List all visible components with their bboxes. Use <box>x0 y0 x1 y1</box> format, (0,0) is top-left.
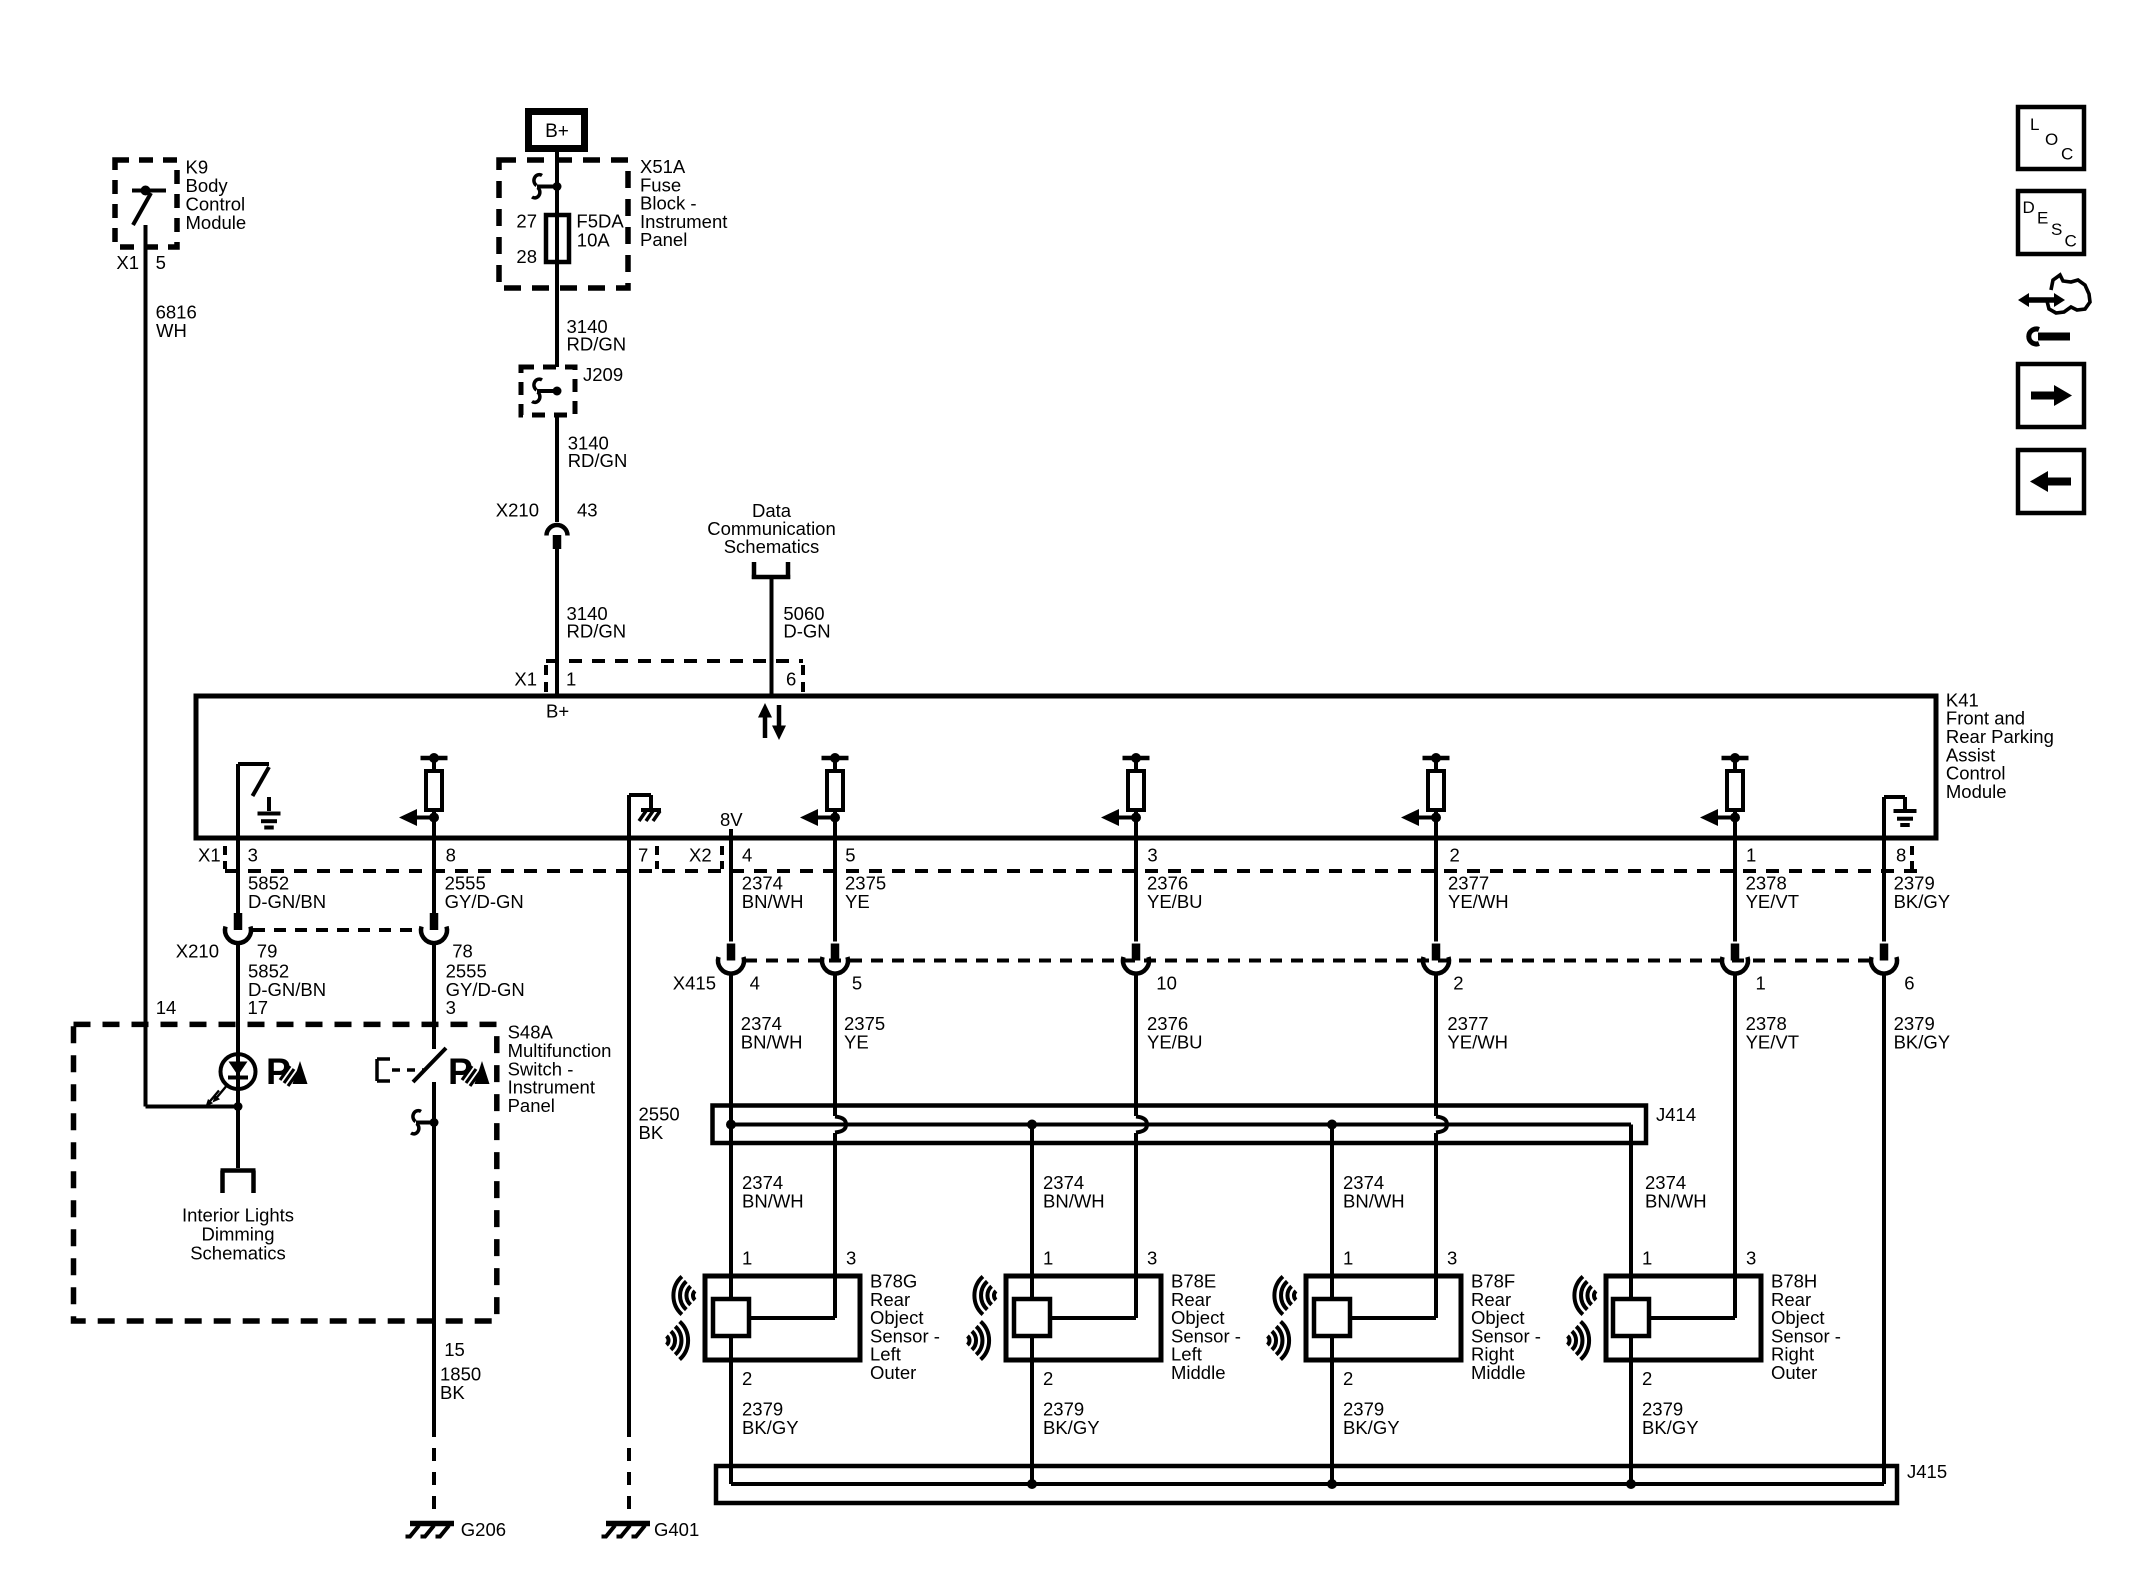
sensor B78F Rear Object Sensor box <box>1306 1276 1461 1360</box>
svg-text:BN/WH: BN/WH <box>1645 1190 1707 1211</box>
svg-text:BK/GY: BK/GY <box>1043 1417 1100 1438</box>
svg-text:27: 27 <box>516 211 537 232</box>
splice pack J415 box <box>716 1461 1947 1503</box>
connector X415 row terminals <box>673 944 1915 994</box>
sensor B78H label <box>1771 1271 1841 1384</box>
svg-text:7: 7 <box>638 845 648 866</box>
svg-text:3: 3 <box>1447 1248 1457 1269</box>
svg-text:J414: J414 <box>1656 1104 1696 1125</box>
svg-text:Middle: Middle <box>1171 1362 1226 1383</box>
sensor B78H sound waves icon <box>1568 1277 1597 1360</box>
terminal clip below switch <box>411 1111 439 1134</box>
svg-text:Schematics: Schematics <box>190 1242 286 1263</box>
svg-text:1: 1 <box>1043 1248 1053 1269</box>
dashed wire to G401 <box>627 1424 631 1519</box>
wire 2378 YE/VT label below X415 <box>1746 1013 1799 1052</box>
splice pack J414 box <box>713 1104 1697 1143</box>
internal switch in K9 <box>132 186 166 248</box>
svg-text:X415: X415 <box>673 973 716 994</box>
off-page reference Data Communication Schematics <box>707 500 836 579</box>
switch S48A label <box>508 1022 612 1116</box>
in-line connector X210 terminal 43 <box>496 500 598 550</box>
svg-text:3: 3 <box>1746 1248 1756 1269</box>
svg-text:5: 5 <box>845 845 855 866</box>
svg-text:4: 4 <box>750 973 760 994</box>
splice J415 bus wire <box>731 1482 1884 1486</box>
wire 2374 BN/WH to B78G label <box>742 1172 804 1211</box>
wire B78E pin 2 to J415 <box>1030 1360 1034 1484</box>
wire LED to junction <box>236 1089 240 1168</box>
svg-text:1: 1 <box>566 669 576 690</box>
dimmer switch contact in S48A <box>377 1048 446 1123</box>
svg-text:Schematics: Schematics <box>724 536 820 557</box>
module K9 Body Control Module dashed box <box>115 160 177 247</box>
wire X415-10 to sensor B78E pin 3 with hop over J414 bus <box>1136 974 1147 1319</box>
ground G206 <box>406 1519 507 1540</box>
sensor B78E ultrasonic transducer <box>1014 1276 1136 1360</box>
park assist button icon at switch <box>448 1051 490 1092</box>
svg-text:Middle: Middle <box>1471 1362 1526 1383</box>
wire 2374 BN/WH to B78H label <box>1645 1172 1707 1211</box>
svg-text:YE/BU: YE/BU <box>1147 1031 1203 1052</box>
svg-text:28: 28 <box>516 246 537 267</box>
svg-text:Outer: Outer <box>870 1362 916 1383</box>
svg-text:YE/WH: YE/WH <box>1447 1031 1508 1052</box>
wire into switch branch <box>432 945 436 1049</box>
svg-text:1: 1 <box>1343 1248 1353 1269</box>
svg-text:1: 1 <box>1642 1248 1652 1269</box>
wire pin X1-8 to X210 <box>432 838 436 913</box>
Interior Lights Dimming Schematics label <box>182 1205 294 1264</box>
svg-text:Module: Module <box>1946 781 2007 802</box>
wire J414 to sensor B78F pin 1 <box>1330 1125 1334 1300</box>
svg-text:B+: B+ <box>546 701 569 722</box>
sensor B78G pin labels <box>742 1248 856 1390</box>
sensor B78E sound waves icon <box>968 1277 997 1360</box>
wire X415-2 to sensor B78F pin 3 with hop over J414 bus <box>1436 974 1447 1319</box>
fuse block X51A label <box>640 156 727 250</box>
svg-text:G401: G401 <box>654 1519 699 1540</box>
sensor B78F label <box>1471 1271 1541 1384</box>
svg-text:2: 2 <box>1642 1368 1652 1389</box>
sensor B78H Rear Object Sensor box <box>1606 1276 1761 1360</box>
sensor B78E Rear Object Sensor box <box>1006 1276 1161 1360</box>
svg-text:Interior Lights: Interior Lights <box>182 1205 294 1226</box>
svg-text:YE/VT: YE/VT <box>1746 1031 1799 1052</box>
LOC button <box>2018 107 2084 169</box>
internal driver resistor at pin X2-3 <box>1101 753 1150 838</box>
terminal clip in fuse block <box>532 175 562 198</box>
svg-text:J209: J209 <box>583 364 623 385</box>
wire X415-6 to splice J415, 2379 BK/GY <box>1882 974 1886 1485</box>
svg-text:YE: YE <box>845 891 870 912</box>
sensor B78F pin labels <box>1343 1248 1457 1390</box>
svg-text:RD/GN: RD/GN <box>568 450 628 471</box>
svg-text:17: 17 <box>248 997 269 1018</box>
wire X415-1 to sensor B78H pin 3 <box>1733 974 1737 1319</box>
wire fuse to J209, 3140 RD/GN <box>557 262 626 367</box>
svg-text:2: 2 <box>1453 973 1463 994</box>
previous page arrow button <box>2018 450 2084 513</box>
svg-text:1: 1 <box>1756 973 1766 994</box>
svg-text:B+: B+ <box>545 121 569 142</box>
wire pin X2-1 to X415 <box>1733 838 1737 942</box>
svg-text:Module: Module <box>186 212 247 233</box>
internal driver resistor at pin X1-8 <box>399 753 448 838</box>
switch S48A Multifunction Switch dashed box <box>74 1024 497 1321</box>
sensor B78G ultrasonic transducer <box>713 1276 835 1360</box>
wire 2375 YE label <box>845 873 886 912</box>
svg-text:YE: YE <box>844 1031 869 1052</box>
wire 2379 BK/GY label below X415 <box>1894 1013 1951 1052</box>
wire B+ to fuse block <box>555 152 559 162</box>
svg-text:BK: BK <box>639 1122 664 1143</box>
svg-text:G206: G206 <box>461 1519 506 1540</box>
svg-text:43: 43 <box>577 500 598 521</box>
sensor B78H pin labels <box>1642 1248 1756 1390</box>
wire through fuse <box>555 215 559 262</box>
module K41 Front and Rear Parking Assist Control Module box <box>196 696 1936 838</box>
terminal clip in J209 <box>532 379 562 402</box>
svg-text:X2: X2 <box>689 845 712 866</box>
svg-text:BN/WH: BN/WH <box>741 1031 803 1052</box>
svg-text:10A: 10A <box>577 230 611 251</box>
wire J209 to X210, 3140 RD/GN <box>557 415 627 522</box>
sensor B78E label <box>1171 1271 1241 1384</box>
svg-text:14: 14 <box>156 997 177 1018</box>
internal ground at pin X2-8 <box>1884 797 1917 838</box>
svg-text:8V: 8V <box>720 809 743 830</box>
wire 2555 GY/D-GN label <box>445 873 524 912</box>
wire 2377 YE/WH label <box>1448 873 1509 912</box>
svg-text:X210: X210 <box>176 941 219 962</box>
svg-text:F5DA: F5DA <box>576 211 624 232</box>
svg-text:2: 2 <box>1450 845 1460 866</box>
svg-text:BK/GY: BK/GY <box>1642 1417 1699 1438</box>
svg-text:5: 5 <box>156 252 166 273</box>
junction dots on J414 bus <box>726 1120 1337 1130</box>
internal ground at pin X2-7 <box>629 795 661 838</box>
svg-text:BK/GY: BK/GY <box>1894 891 1951 912</box>
internal switch to ground at pin X1-3 <box>238 764 281 838</box>
svg-text:78: 78 <box>452 941 473 962</box>
wire 2376 YE/BU label <box>1147 873 1203 912</box>
wire pin X2-4 to X415 <box>729 838 733 942</box>
svg-text:E: E <box>2037 209 2048 228</box>
module K9 label <box>186 157 247 234</box>
sensor B78G sound waves icon <box>667 1277 696 1360</box>
svg-text:8: 8 <box>446 845 456 866</box>
8V supply label at pin X2-4 <box>720 809 743 838</box>
svg-text:RD/GN: RD/GN <box>567 334 627 355</box>
sensor B78F ultrasonic transducer <box>1314 1276 1436 1360</box>
wire 2379 BK/GY from B78F label <box>1343 1399 1400 1438</box>
sensor B78H ultrasonic transducer <box>1613 1276 1735 1360</box>
svg-text:BK/GY: BK/GY <box>1343 1417 1400 1438</box>
wire B78G pin 2 to J415 <box>729 1360 733 1484</box>
sensor B78G Rear Object Sensor box <box>705 1276 860 1360</box>
DESC button <box>2018 191 2084 254</box>
LED interior lamp in S48A <box>206 1054 256 1106</box>
connector X210 pair terminals 79/78 <box>176 913 473 962</box>
svg-text:3: 3 <box>446 997 456 1018</box>
svg-text:79: 79 <box>257 941 278 962</box>
dashed wire 1850 BK to G206 <box>432 1424 436 1519</box>
wire pin X2-7 down <box>627 838 631 1424</box>
wire 5852 D-GN/BN to S48A pin 17 label <box>248 961 327 1019</box>
wire 2378 YE/VT label <box>1746 873 1799 912</box>
svg-text:Dimming: Dimming <box>202 1223 275 1244</box>
repair instructions icon <box>2018 275 2090 344</box>
svg-text:4: 4 <box>742 845 752 866</box>
wire J414 to sensor B78E pin 1 <box>1030 1125 1034 1300</box>
wire pin X2-2 to X415 <box>1434 838 1438 942</box>
ground G401 <box>602 1519 700 1540</box>
svg-text:X210: X210 <box>496 500 539 521</box>
wire 2375 YE label below X415 <box>844 1013 885 1052</box>
sensor B78F sound waves icon <box>1268 1277 1297 1360</box>
svg-text:X1: X1 <box>198 845 221 866</box>
svg-text:L: L <box>2030 115 2039 134</box>
wire X415-5 to sensor B78G pin 3 with hop over J414 bus <box>835 974 846 1319</box>
internal driver resistor at pin X2-5 <box>800 753 849 838</box>
svg-text:2: 2 <box>1043 1368 1053 1389</box>
wire 2374 BN/WH to B78F label <box>1343 1172 1405 1211</box>
svg-text:J415: J415 <box>1907 1461 1947 1482</box>
off-page arrow to Interior Lights Dimming Schematics <box>221 1171 256 1194</box>
park assist button icon at LED <box>266 1051 308 1092</box>
svg-text:6: 6 <box>1904 973 1914 994</box>
wire 2374 BN/WH to B78E label <box>1043 1172 1105 1211</box>
wire 2377 YE/WH label below X415 <box>1447 1013 1508 1052</box>
sensor B78G label <box>870 1271 940 1384</box>
wire pin X2-8 to X415 <box>1882 838 1886 942</box>
svg-text:Panel: Panel <box>508 1095 555 1116</box>
svg-text:2: 2 <box>742 1368 752 1389</box>
svg-text:BK/GY: BK/GY <box>1894 1031 1951 1052</box>
wire 2555 GY/D-GN to S48A pin 3 label <box>446 961 525 1019</box>
svg-text:WH: WH <box>156 320 187 341</box>
svg-text:15: 15 <box>444 1339 465 1360</box>
sensor B78E pin labels <box>1043 1248 1157 1390</box>
splice J414 bus wire <box>731 1125 1631 1300</box>
svg-text:D-GN: D-GN <box>783 621 830 642</box>
svg-text:GY/D-GN: GY/D-GN <box>445 891 524 912</box>
wire 6816 WH from K9 to S48A <box>146 247 237 1107</box>
wire 5852 D-GN/BN label <box>248 873 326 912</box>
battery B+ symbol <box>529 112 585 149</box>
wire 2379 BK/GY from B78H label <box>1642 1399 1699 1438</box>
svg-text:BN/WH: BN/WH <box>1043 1190 1105 1211</box>
serial data up/down arrows inside module <box>758 703 786 740</box>
svg-text:1: 1 <box>1746 845 1756 866</box>
svg-text:BN/WH: BN/WH <box>742 891 804 912</box>
internal driver resistor at pin X2-2 <box>1401 753 1450 838</box>
svg-text:Panel: Panel <box>640 229 687 250</box>
svg-text:3: 3 <box>846 1248 856 1269</box>
connector X1 pin 5 labels at K9 <box>116 252 166 273</box>
svg-text:O: O <box>2045 130 2058 149</box>
S48A pin 14 label <box>156 997 177 1018</box>
svg-text:D-GN/BN: D-GN/BN <box>248 891 326 912</box>
wire 2374 BN/WH label <box>742 873 804 912</box>
svg-text:2: 2 <box>1343 1368 1353 1389</box>
svg-text:BK: BK <box>440 1382 465 1403</box>
svg-text:X1: X1 <box>116 252 139 273</box>
internal driver resistor at pin X2-1 <box>1700 753 1749 838</box>
wire pin X1-3 to X210 <box>236 838 240 913</box>
wire pin X2-3 to X415 <box>1134 838 1138 942</box>
module K41 label <box>1946 689 2054 802</box>
wire into LED branch <box>236 945 240 1054</box>
wire 2550 BK label <box>639 1104 680 1143</box>
junction dots on J415 bus <box>1027 1479 1636 1489</box>
svg-text:X1: X1 <box>514 669 537 690</box>
fuse F5DA 10A <box>516 211 624 268</box>
svg-text:YE/WH: YE/WH <box>1448 891 1509 912</box>
wire B78H pin 2 to J415 <box>1629 1360 1633 1484</box>
wire 2379 BK/GY label <box>1894 873 1951 912</box>
svg-text:10: 10 <box>1156 973 1177 994</box>
svg-text:6: 6 <box>786 669 796 690</box>
svg-text:C: C <box>2061 145 2073 164</box>
svg-text:3: 3 <box>1147 1248 1157 1269</box>
wire B78F pin 2 to J415 <box>1330 1360 1334 1484</box>
svg-text:BK/GY: BK/GY <box>742 1417 799 1438</box>
svg-text:BN/WH: BN/WH <box>1343 1190 1405 1211</box>
svg-text:8: 8 <box>1896 845 1906 866</box>
svg-text:S: S <box>2051 220 2062 239</box>
wire 5060 D-GN <box>772 579 831 696</box>
svg-text:BN/WH: BN/WH <box>742 1190 804 1211</box>
wire 2374 BN/WH label below X415 <box>741 1013 803 1052</box>
junction node of 6816 and LED branch <box>234 1102 243 1111</box>
svg-text:C: C <box>2065 232 2077 251</box>
fuse block X51A dashed box <box>499 160 628 288</box>
wire X210 to module, 3140 RD/GN <box>557 547 626 696</box>
wire switch to pin 15 <box>434 1123 481 1425</box>
wire inside fuse block <box>555 160 559 215</box>
svg-text:RD/GN: RD/GN <box>567 621 627 642</box>
svg-text:D: D <box>2023 198 2035 217</box>
wire X415-4 to splice J414 <box>729 974 733 1300</box>
wire 2379 BK/GY from B78G label <box>742 1399 799 1438</box>
svg-text:Outer: Outer <box>1771 1362 1817 1383</box>
wire pin X2-5 to X415 <box>833 838 837 942</box>
next page arrow button <box>2018 364 2084 427</box>
svg-text:5: 5 <box>852 973 862 994</box>
svg-text:YE/VT: YE/VT <box>1746 891 1799 912</box>
svg-text:3: 3 <box>248 845 258 866</box>
B+ net label inside module <box>546 701 569 722</box>
wire 2376 YE/BU label below X415 <box>1147 1013 1203 1052</box>
splice J209 dashed box <box>521 364 623 415</box>
connector X1/X2 row below module <box>198 845 1918 872</box>
svg-text:YE/BU: YE/BU <box>1147 891 1203 912</box>
svg-text:GY/D-GN: GY/D-GN <box>446 979 525 1000</box>
svg-text:1: 1 <box>742 1248 752 1269</box>
wire 2379 BK/GY from B78E label <box>1043 1399 1100 1438</box>
connector X1 row at module top <box>514 661 803 692</box>
svg-text:3: 3 <box>1147 845 1157 866</box>
